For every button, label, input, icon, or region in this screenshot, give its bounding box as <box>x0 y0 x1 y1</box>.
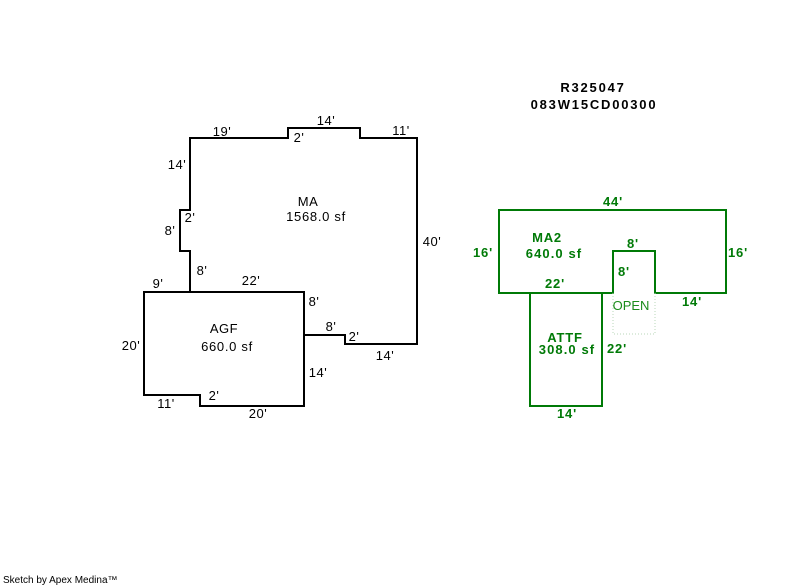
area AGF outline <box>144 292 304 406</box>
svg-text:22': 22' <box>242 273 260 288</box>
svg-text:14': 14' <box>557 406 577 421</box>
svg-text:22': 22' <box>545 276 565 291</box>
svg-text:8': 8' <box>309 294 320 309</box>
svg-text:40': 40' <box>423 234 441 249</box>
svg-text:R325047: R325047 <box>560 80 625 95</box>
svg-text:14': 14' <box>168 157 186 172</box>
svg-text:8': 8' <box>197 263 208 278</box>
svg-text:MA2: MA2 <box>532 230 562 245</box>
svg-text:16': 16' <box>728 245 748 260</box>
svg-text:8': 8' <box>627 236 639 251</box>
svg-text:8': 8' <box>165 223 176 238</box>
svg-text:44': 44' <box>603 194 623 209</box>
area MA outline <box>180 128 417 344</box>
svg-text:14': 14' <box>309 365 327 380</box>
svg-text:2': 2' <box>209 388 220 403</box>
area OPEN dashed outline <box>613 293 655 334</box>
svg-text:1568.0 sf: 1568.0 sf <box>286 209 346 224</box>
area MA2 outline <box>499 210 726 293</box>
svg-text:640.0 sf: 640.0 sf <box>526 246 583 261</box>
area ATTF outline <box>530 293 602 406</box>
svg-text:2': 2' <box>294 130 305 145</box>
svg-text:2': 2' <box>349 329 360 344</box>
svg-text:14': 14' <box>376 348 394 363</box>
svg-text:OPEN: OPEN <box>613 298 650 313</box>
svg-text:19': 19' <box>213 124 231 139</box>
svg-text:14': 14' <box>682 294 702 309</box>
svg-text:2': 2' <box>185 210 196 225</box>
svg-text:16': 16' <box>473 245 493 260</box>
svg-text:308.0 sf: 308.0 sf <box>539 342 596 357</box>
svg-text:660.0 sf: 660.0 sf <box>201 339 253 354</box>
svg-text:9': 9' <box>153 276 164 291</box>
svg-text:11': 11' <box>157 396 174 411</box>
svg-text:20': 20' <box>122 338 140 353</box>
svg-text:8': 8' <box>326 319 337 334</box>
svg-text:14': 14' <box>317 113 335 128</box>
svg-text:8': 8' <box>618 264 630 279</box>
svg-text:20': 20' <box>249 406 267 421</box>
svg-text:22': 22' <box>607 341 627 356</box>
svg-text:11': 11' <box>392 123 409 138</box>
svg-text:AGF: AGF <box>210 321 238 336</box>
svg-text:Sketch by Apex Medina™: Sketch by Apex Medina™ <box>3 575 118 586</box>
svg-text:MA: MA <box>298 194 319 209</box>
svg-text:083W15CD00300: 083W15CD00300 <box>531 97 658 112</box>
